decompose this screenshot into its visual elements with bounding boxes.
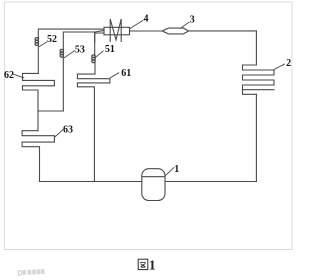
svg-text:4: 4 <box>144 14 149 25</box>
fuse 3 hexagon <box>162 28 188 34</box>
wire fuse to box 4 <box>130 30 163 32</box>
inductor coil 53 <box>60 49 63 57</box>
svg-text:62: 62 <box>4 70 14 81</box>
svg-text:61: 61 <box>121 68 131 79</box>
svg-text:1: 1 <box>174 164 179 175</box>
svg-text:51: 51 <box>105 44 115 55</box>
wire bottom rail right <box>165 181 256 183</box>
capacitor 61 plates <box>77 74 110 181</box>
inductor coil 52 <box>35 38 38 46</box>
wire top rail right to fuse <box>189 30 257 32</box>
leader label 4 <box>130 21 143 29</box>
battery 2 extra plate <box>243 89 275 91</box>
motor M1 rounded canister <box>142 169 165 201</box>
figure caption 图1 glyph box <box>138 259 148 269</box>
wire bottom rail left <box>40 181 142 183</box>
leader label 3 <box>181 22 190 28</box>
wire left chain to capacitor 63 <box>37 111 39 131</box>
leader label 52 <box>39 42 47 47</box>
capacitor 62 plates <box>23 73 55 111</box>
igniter box 4 <box>104 27 130 35</box>
capacitor 63 plates <box>22 131 54 182</box>
svg-text:2: 2 <box>286 58 291 69</box>
svg-text:52: 52 <box>47 34 57 45</box>
watermark logo <box>17 269 44 276</box>
inductor coil 51 <box>92 55 95 63</box>
leader label 51 <box>95 51 103 58</box>
wire right rail down <box>255 94 257 181</box>
motor lid line <box>142 176 165 178</box>
wire box 4 lower-left tap <box>95 33 104 42</box>
wire from coil 52 down <box>37 38 39 73</box>
wire top rail 2 <box>63 30 104 49</box>
leader label 63 <box>55 130 63 137</box>
svg-text:1: 1 <box>149 259 156 274</box>
wire branch to coil 51 <box>94 32 96 55</box>
svg-text:3: 3 <box>190 14 195 25</box>
frame border <box>5 2 293 250</box>
leader label 2 <box>274 64 285 70</box>
battery 2 plates <box>243 31 275 94</box>
wire coil 51 down <box>77 55 95 74</box>
wire junction T to coil 53 branch <box>38 110 63 112</box>
svg-text:63: 63 <box>63 125 73 136</box>
leader label 53 <box>64 51 74 58</box>
wire coil 53 down to junction <box>62 50 64 111</box>
leader label 1 <box>165 168 174 177</box>
svg-text:53: 53 <box>75 45 85 56</box>
leader label 61 <box>110 73 119 78</box>
igniter zigzag element <box>110 19 121 42</box>
wire top rail 1 <box>38 29 104 37</box>
leader label 62 <box>14 74 24 78</box>
